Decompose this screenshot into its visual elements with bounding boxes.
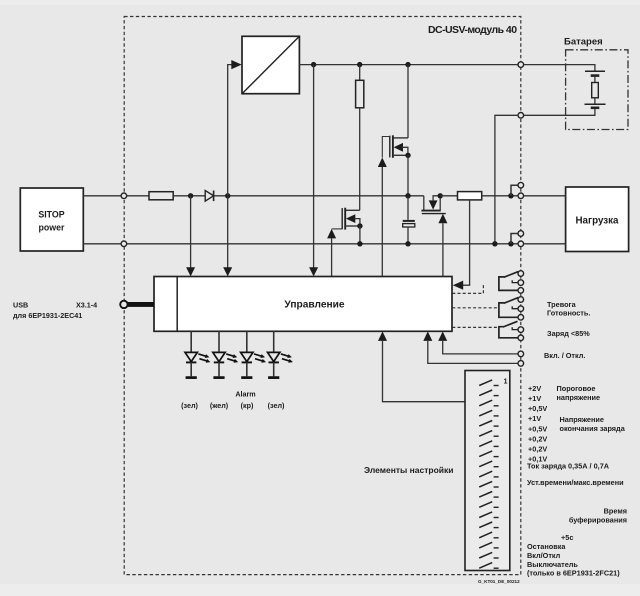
node: C1 on 0V rail <box>405 241 410 246</box>
DIP switch 14 <box>479 512 498 518</box>
relay K2 ready changeover contact <box>499 298 518 318</box>
diode D1 <box>205 191 213 202</box>
svg-text:+2V: +2V <box>528 384 541 393</box>
resistor R1 <box>356 65 364 108</box>
svg-text:+1V: +1V <box>528 414 541 423</box>
shunt resistor R2 <box>458 192 482 200</box>
svg-text:+0,5V: +0,5V <box>528 404 547 413</box>
wire: control supply feed down <box>313 65 315 268</box>
wire: battery + lead <box>524 65 595 72</box>
svg-text:+0,2V: +0,2V <box>528 434 547 443</box>
svg-text:+0,2V: +0,2V <box>528 445 547 454</box>
wire: converter output rail to battery terminal <box>299 64 518 66</box>
LED D5 (green) <box>268 331 293 377</box>
DIP switch 12 <box>479 492 498 498</box>
dashed actuation link K3 <box>452 326 497 328</box>
wire: 0V bottom rail <box>127 243 518 245</box>
MOSFET Q1 <box>382 65 410 196</box>
wire: Q3 to shunt <box>440 195 457 197</box>
DIP switch 13 <box>479 502 498 508</box>
svg-text:DC-USV-модуль 40: DC-USV-модуль 40 <box>428 24 517 36</box>
node: Q2 source on 0V rail <box>357 241 362 246</box>
svg-text:1: 1 <box>503 377 507 386</box>
battery G1 symbol <box>585 71 606 108</box>
DIP switch 9 <box>479 461 498 467</box>
DIP switch 6 <box>479 431 498 437</box>
dashed actuation link K1 <box>452 283 483 293</box>
node: middle rail / C1 junction <box>405 193 410 198</box>
svg-text:для 6EP1931-2EC41: для 6EP1931-2EC41 <box>13 311 82 320</box>
terminal battery + <box>518 62 524 68</box>
DIP switch 5 <box>479 421 498 427</box>
DIP switch 7 <box>479 441 498 447</box>
DIP switch 1 <box>479 380 498 386</box>
svg-text:(кр): (кр) <box>241 401 254 410</box>
node: input sense junction <box>188 193 193 198</box>
svg-text:Остановка: Остановка <box>527 542 566 551</box>
control arrow to Q1 gate <box>378 158 387 277</box>
arrowhead into control box (supply) <box>309 267 318 276</box>
DIP switch 2 <box>479 390 498 396</box>
terminal load - (spare) <box>518 231 524 237</box>
terminal input - <box>121 241 127 247</box>
svg-text:+1V: +1V <box>528 394 541 403</box>
svg-text:Время: Время <box>604 507 627 516</box>
terminal K3 common <box>518 335 524 341</box>
terminal K2 NO <box>518 297 524 303</box>
wire: input sense line down to control <box>190 196 192 268</box>
relay K3 charge<85% contact <box>499 321 518 338</box>
DIP switch block S1 <box>465 371 510 571</box>
capacitor C1 <box>403 196 415 244</box>
svg-text:+5с: +5с <box>561 533 573 542</box>
control arrow to Q2 gate <box>327 229 336 277</box>
jumper to spare - terminal <box>511 234 518 244</box>
DIP switch 16 <box>479 532 498 538</box>
DIP switch 18 <box>479 552 498 558</box>
terminal on/off 2 <box>518 361 524 367</box>
svg-text:SITOP: SITOP <box>38 210 64 220</box>
module dashed border <box>124 17 521 575</box>
svg-text:Заряд <85%: Заряд <85% <box>547 329 590 338</box>
DIP switch 8 <box>479 451 498 457</box>
battery enclosure (dash-dot) <box>566 50 628 130</box>
terminal K1 common <box>518 288 524 294</box>
wire: battery - lead <box>524 108 595 116</box>
svg-text:X3.1-4: X3.1-4 <box>76 301 97 310</box>
LED D4 (red) <box>241 331 266 377</box>
svg-text:Напряжение: Напряжение <box>560 415 604 424</box>
terminal K2 NC <box>518 306 524 312</box>
dashed actuation link K2 <box>452 307 497 309</box>
DIP switch 3 <box>479 400 498 406</box>
svg-text:Вкл/Откл: Вкл/Откл <box>527 551 561 560</box>
svg-text:Уст.времени/макс.времени: Уст.времени/макс.времени <box>527 478 624 487</box>
svg-text:power: power <box>39 223 65 233</box>
svg-text:окончания заряда: окончания заряда <box>560 424 626 433</box>
node: Q1 branch on top rail <box>405 62 410 67</box>
svg-text:Alarm: Alarm <box>235 390 255 399</box>
wire: load - terminal to load box <box>524 243 566 245</box>
terminal load - <box>518 241 524 247</box>
terminal K3 NO <box>518 327 524 333</box>
arrowhead into control box (input sense) <box>186 267 195 276</box>
svg-text:Ток заряда 0,35А / 0,7А: Ток заряда 0,35А / 0,7А <box>527 461 610 470</box>
node: load + jumper junction <box>508 193 513 198</box>
wire: shunt sense down and into control box <box>463 200 470 285</box>
LED D3 (yellow) <box>213 331 238 377</box>
svg-text:буферирования: буферирования <box>569 515 627 524</box>
on/off input 2: arrow into control box bottom <box>423 331 518 363</box>
svg-text:Нагрузка: Нагрузка <box>575 216 619 227</box>
terminal K1 NC <box>518 280 524 286</box>
DIP switch 4 <box>479 410 498 416</box>
wire: battery - rail down to 0V <box>495 115 518 244</box>
svg-text:+0,5V: +0,5V <box>528 424 547 433</box>
DIP switch 10 <box>479 471 498 477</box>
wire: SITOP - output to terminal <box>83 243 121 245</box>
svg-text:G_KT01_DE_00212: G_KT01_DE_00212 <box>478 579 520 584</box>
wire: converter input riser <box>228 65 232 196</box>
control box Upravlenie <box>154 277 452 332</box>
terminal K2 common <box>518 315 524 321</box>
svg-text:Готовность.: Готовность. <box>547 309 590 318</box>
load box <box>566 187 629 252</box>
svg-text:Вкл. / Откл.: Вкл. / Откл. <box>544 351 585 360</box>
svg-text:Тревога: Тревога <box>547 300 577 309</box>
wire: shunt to load + terminal <box>482 195 518 197</box>
svg-text:Батарея: Батарея <box>564 37 603 48</box>
svg-text:Пороговое: Пороговое <box>557 384 596 393</box>
wire: fuse to diode <box>173 195 205 197</box>
wire: DIP block to control box with arrow <box>378 331 465 401</box>
node: battery - on 0V rail <box>492 241 497 246</box>
svg-text:USB: USB <box>13 301 28 310</box>
jumper to spare + terminal <box>511 185 518 196</box>
svg-text:(жел): (жел) <box>210 401 229 410</box>
wire: converter tap sense down to control <box>227 196 229 268</box>
DIP switch 15 <box>479 522 498 528</box>
DIP switch 11 <box>479 481 498 487</box>
node: load - jumper junction <box>508 241 513 246</box>
wire: R1 down to Q2 drain (crosses middle rail) <box>359 108 361 211</box>
DC/DC converter U1 <box>242 36 299 93</box>
svg-text:Элементы настройки: Элементы настройки <box>364 465 454 475</box>
USB thick connection bar <box>128 302 154 307</box>
svg-text:напряжение: напряжение <box>557 393 601 402</box>
MOSFET Q2 <box>332 208 363 244</box>
wire: middle rail from diode to Q3 <box>214 195 424 197</box>
terminal battery - <box>518 113 524 119</box>
node: converter output / control feed <box>311 62 316 67</box>
arrowhead into converter input <box>231 60 241 69</box>
svg-text:Выключатель: Выключатель <box>527 560 578 569</box>
wire: load + terminal to load box <box>524 195 566 197</box>
control arrow to Q3 gate <box>438 214 447 277</box>
SITOP power box <box>20 188 83 251</box>
svg-text:(только в 6EP1931-2FC21): (только в 6EP1931-2FC21) <box>527 569 620 578</box>
terminal load + (spare) <box>518 182 524 188</box>
wire: terminal to fuse <box>127 195 149 197</box>
arrowhead into control box right (shunt sense) <box>453 281 463 290</box>
MOSFET Q3 (horizontal) <box>421 193 445 214</box>
arrowhead into control box (converter tap sense) <box>223 267 232 276</box>
node: converter tap junction <box>225 193 230 198</box>
svg-text:Управление: Управление <box>284 300 345 311</box>
relay K1 alarm changeover contact <box>499 272 518 291</box>
LED D2 (green) <box>185 331 210 377</box>
terminal on/off 1 <box>518 351 524 357</box>
svg-text:(зел): (зел) <box>268 401 285 410</box>
DIP switch 17 <box>479 542 498 548</box>
terminal load + <box>518 193 524 199</box>
terminal K1 NO <box>518 271 524 277</box>
svg-text:(зел): (зел) <box>181 401 198 410</box>
on/off input 1: arrow into control box bottom <box>438 331 518 354</box>
fuse F1 <box>149 192 173 200</box>
terminal input + <box>121 193 127 199</box>
USB terminal circle <box>120 301 127 308</box>
node: resistor branch on top rail <box>357 62 362 67</box>
DIP switch 19 <box>479 563 498 569</box>
wire: SITOP + output to terminal <box>83 195 121 197</box>
